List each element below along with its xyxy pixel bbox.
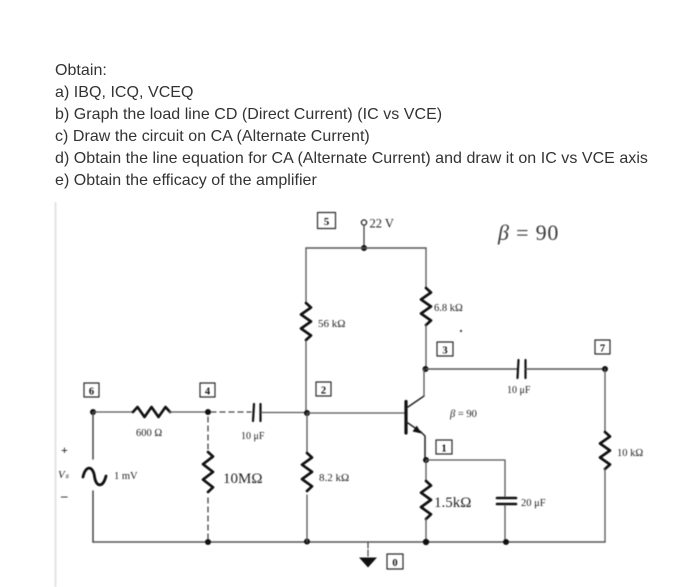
node junction 7: [602, 366, 608, 372]
wire dashed 10M upper: [207, 417, 209, 452]
scan edge line: [55, 203, 57, 587]
wire dashed node4 to cap: [211, 411, 251, 413]
wire supply stub: [363, 225, 365, 248]
wire source branch lower: [92, 491, 94, 542]
svg-text:Vₛ: Vₛ: [58, 469, 70, 481]
svg-text:1.5kΩ: 1.5kΩ: [434, 495, 471, 511]
resistor 8.2 kOhm: [302, 453, 312, 491]
node junction collector: [423, 366, 429, 372]
svg-text:8.2 kΩ: 8.2 kΩ: [319, 472, 349, 484]
node junction at top rail: [361, 245, 367, 251]
wire load lower: [604, 469, 606, 542]
svg-text:10MΩ: 10MΩ: [223, 471, 263, 487]
wire 8.2k upper: [306, 413, 308, 453]
wire source to resistor: [93, 411, 133, 413]
node 2: [316, 382, 331, 397]
node junction 8.2k bottom: [304, 539, 310, 545]
wire left divider upper: [305, 248, 307, 304]
node 5: [318, 213, 336, 229]
resistor 10 kOhm load: [600, 432, 610, 469]
source Vs 1 mV: [58, 443, 138, 503]
svg-text:20 μF: 20 μF: [521, 498, 546, 509]
wire right divider lower: [425, 325, 427, 369]
resistor 56 kOhm: [301, 303, 311, 340]
node junction 4: [205, 409, 211, 415]
node junction bypass bottom: [503, 539, 509, 545]
node junction source top: [90, 409, 96, 415]
wire right divider upper: [425, 248, 427, 288]
wire resistor to node 4: [169, 411, 208, 413]
node 0: [387, 554, 403, 569]
svg-text:β = 90: β = 90: [497, 220, 559, 245]
ground stub: [367, 542, 369, 557]
resistor 1.5 kOhm: [421, 481, 431, 519]
svg-text:10 kΩ: 10 kΩ: [617, 448, 643, 459]
svg-text:56 kΩ: 56 kΩ: [318, 318, 345, 330]
wire bottom rail: [93, 541, 605, 543]
svg-text:3: 3: [442, 346, 447, 357]
svg-text:22 V: 22 V: [370, 217, 394, 231]
node junction emitter: [423, 457, 429, 463]
svg-text:2: 2: [321, 386, 326, 397]
svg-text:1 mV: 1 mV: [114, 471, 138, 482]
wire base: [307, 412, 406, 414]
node 7: [595, 340, 610, 355]
svg-text:6: 6: [89, 387, 94, 398]
speck artifact: [460, 330, 462, 332]
svg-text:–: –: [60, 488, 68, 503]
wire emitter to bypass cap: [426, 460, 505, 496]
svg-text:0: 0: [392, 558, 397, 569]
capacitor 10 uF input: [253, 404, 261, 421]
wire top rail: [306, 247, 426, 249]
svg-text:1: 1: [441, 444, 446, 455]
capacitor 20 uF bypass: [497, 498, 516, 504]
wire 8.2k lower: [306, 495, 308, 542]
ground: [359, 558, 377, 568]
wire collector to output cap: [426, 368, 517, 370]
svg-text:10 μF: 10 μF: [241, 431, 265, 442]
wire left divider lower: [305, 341, 307, 413]
node 1: [436, 440, 452, 455]
wire dashed 10M lower: [207, 498, 209, 542]
node 3: [437, 342, 453, 357]
node 4: [200, 383, 215, 398]
svg-text:5: 5: [324, 216, 330, 228]
node 6: [84, 383, 99, 398]
node junction emitter resistor bottom: [423, 539, 429, 545]
wire emitter resistor upper: [425, 460, 427, 481]
svg-text:6.8 kΩ: 6.8 kΩ: [434, 303, 463, 314]
wire bypass cap lower: [504, 505, 506, 542]
svg-text:4: 4: [205, 387, 211, 398]
resistor 10 MOhm: [203, 452, 213, 492]
wire cap to node 7: [526, 368, 605, 370]
svg-text:+: +: [61, 443, 68, 457]
resistor 600 Ohm: [133, 407, 170, 417]
node junction 2: [304, 410, 310, 416]
node junction 10M bottom: [205, 539, 211, 545]
wire cap to node 2: [261, 412, 307, 414]
transistor Q1: [406, 369, 425, 460]
resistor 6.8 kOhm: [421, 288, 431, 325]
svg-text:β = 90: β = 90: [449, 409, 477, 420]
wire emitter resistor lower: [425, 519, 427, 542]
svg-text:7: 7: [600, 344, 605, 355]
svg-text:10 μF: 10 μF: [507, 385, 531, 396]
supply terminal 22 V: [361, 217, 394, 231]
capacitor 10 uF output: [518, 360, 526, 378]
wire load upper: [604, 369, 606, 432]
svg-text:600 Ω: 600 Ω: [136, 428, 162, 439]
wire source branch upper: [92, 412, 94, 459]
